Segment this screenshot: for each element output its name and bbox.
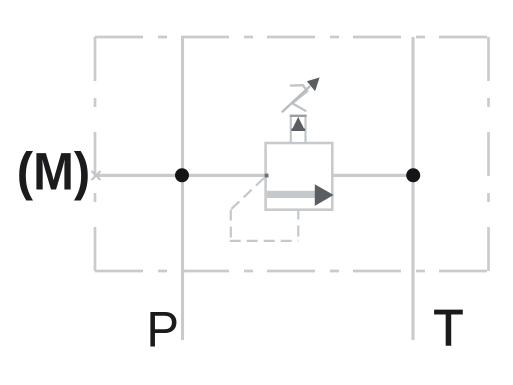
svg-text:(M): (M)	[17, 142, 90, 201]
svg-text:P: P	[146, 301, 179, 358]
svg-text:T: T	[434, 300, 464, 357]
